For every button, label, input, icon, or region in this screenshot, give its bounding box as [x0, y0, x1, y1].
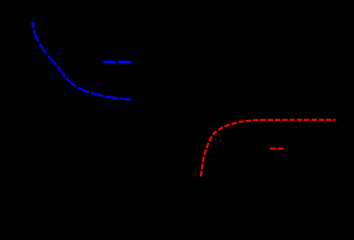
- blue curve start wedge: [32, 22, 36, 25]
- blue dashed curve: [32, 23, 131, 100]
- red legend dash: [270, 148, 284, 150]
- blue legend dash: [103, 61, 131, 63]
- red dashed curve: [201, 120, 336, 177]
